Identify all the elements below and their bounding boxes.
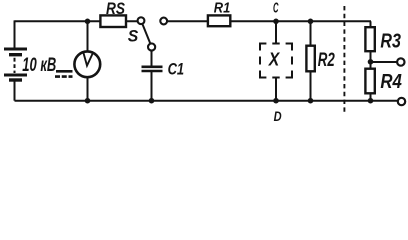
svg-text:RS: RS xyxy=(106,0,125,18)
svg-text:C1: C1 xyxy=(168,60,185,78)
svg-text:X: X xyxy=(268,48,281,69)
svg-text:S: S xyxy=(128,26,139,45)
svg-text:C: C xyxy=(273,1,279,17)
svg-text:R1: R1 xyxy=(214,0,231,16)
svg-text:D: D xyxy=(274,108,282,123)
svg-text:10 кВ: 10 кВ xyxy=(22,55,56,76)
svg-text:R2: R2 xyxy=(318,49,335,71)
svg-text:R3: R3 xyxy=(380,30,401,53)
svg-text:R4: R4 xyxy=(380,70,402,93)
